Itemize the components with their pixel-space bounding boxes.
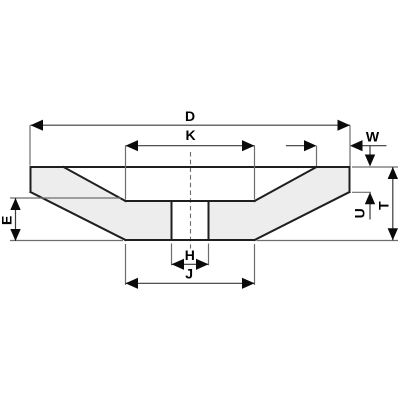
dim line W left tail [286, 145, 305, 147]
svg-text:K: K [185, 127, 195, 143]
svg-text:J: J [185, 266, 193, 282]
arrow E top [10, 198, 20, 210]
svg-text:H: H [185, 247, 195, 263]
arrow T top [388, 167, 398, 179]
wheel outline: left edge [30, 167, 32, 192]
ext line H right [208, 244, 210, 266]
wheel outline: left top taper [64, 167, 126, 201]
svg-text:W: W [366, 128, 380, 144]
centerline (dashed axis) [190, 152, 192, 249]
arrow W left (outside, pointing right) [304, 140, 317, 151]
wheel outline: top face [31, 167, 350, 240]
ext line D/W right [349, 125, 351, 166]
svg-text:T: T [376, 201, 392, 210]
arrow D left [31, 120, 44, 131]
dim line U bottom tail [369, 203, 371, 220]
wheel outline: hub bottom [126, 239, 255, 241]
ext line J right [254, 244, 256, 285]
ext line U bottom [352, 191, 371, 193]
wheel outline: right edge [349, 167, 351, 192]
ext line H left [171, 244, 173, 266]
arrowheads [10, 120, 398, 289]
wheel outline: hub top [126, 200, 255, 202]
dim line E [15, 198, 17, 241]
arrow T bottom [388, 228, 398, 240]
wheel outline: left bottom taper [31, 192, 126, 240]
arrow D right [338, 120, 351, 131]
svg-text:D: D [185, 108, 195, 124]
arrow W right (outside, pointing left) [350, 140, 363, 151]
wheel cross-section left half (grey body) [31, 167, 172, 240]
dim line T [392, 167, 394, 240]
arrow K left [126, 140, 139, 151]
wheel outline: right bottom taper [255, 192, 350, 240]
ext line W left [316, 146, 318, 166]
dim line K [126, 145, 255, 147]
arrow K right [242, 140, 255, 151]
svg-text:E: E [0, 216, 15, 225]
ext line top right (U/T top) [352, 166, 398, 168]
extension lines [10, 125, 398, 285]
bore wall left [171, 201, 173, 240]
dim line J [126, 282, 255, 284]
arrow H left [172, 259, 185, 270]
wheel cross-section right half (grey body) [209, 167, 350, 240]
svg-text:U: U [352, 208, 368, 218]
arrow E bottom [10, 229, 20, 241]
ext line K left [125, 146, 127, 200]
dim line W right tail [361, 145, 387, 147]
ext line D left [29, 125, 31, 165]
ext line bottom right (T bottom) [257, 240, 399, 242]
dim line U top drop [369, 146, 371, 156]
arrow H right [196, 259, 209, 270]
dim line D [31, 124, 351, 126]
arrow U bottom (outside, pointing up) [365, 192, 375, 204]
wheel outline: right top taper [255, 167, 317, 201]
ext line bottom left (E bottom) [10, 240, 123, 242]
arrow J right [242, 278, 255, 289]
arrow J left [126, 278, 139, 289]
dimension lines [16, 125, 393, 283]
bore wall right [208, 201, 210, 240]
dim line H [172, 263, 209, 265]
arrow U top (outside, pointing down) [365, 155, 375, 167]
ext line J left [125, 244, 127, 285]
ext line K right [254, 146, 256, 200]
ext line E top [10, 197, 121, 199]
